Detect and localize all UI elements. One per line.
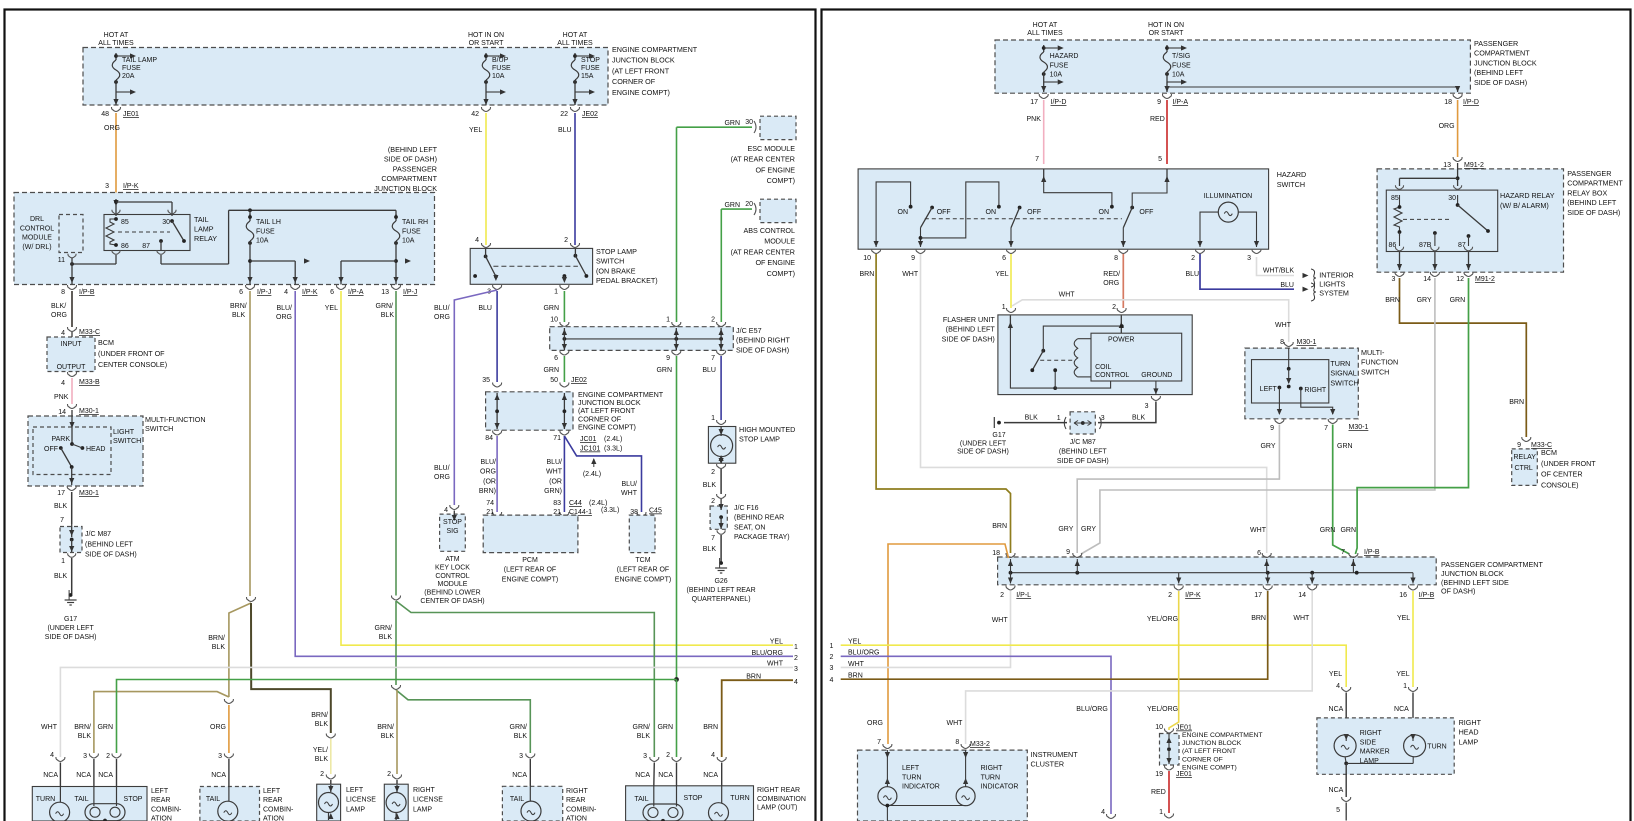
svg-text:7: 7 (711, 535, 715, 542)
svg-text:NCA: NCA (1394, 706, 1409, 713)
fuse TAIL LH FUSE 10A (249, 210, 251, 216)
svg-text:71: 71 (553, 435, 561, 442)
flasher ground output (1155, 381, 1157, 395)
svg-text:ORG: ORG (434, 474, 450, 481)
svg-text:BRN: BRN (1385, 297, 1400, 304)
svg-text:7: 7 (60, 517, 64, 524)
wire relay 86 and DRL 11 to I/P-B (115, 255, 117, 264)
svg-text:NCA: NCA (98, 772, 113, 779)
svg-text:MODULE: MODULE (22, 235, 52, 242)
svg-text:I/P-D: I/P-D (1463, 99, 1479, 106)
svg-text:10A: 10A (1050, 72, 1063, 79)
svg-text:TAIL: TAIL (206, 796, 220, 803)
svg-text:(AT LEFT FRONT: (AT LEFT FRONT (612, 66, 670, 75)
hazard relay coil (1394, 195, 1402, 236)
svg-text:SIDE OF DASH): SIDE OF DASH) (45, 634, 97, 641)
svg-text:WHT/BLK: WHT/BLK (1263, 268, 1294, 275)
svg-text:BLK: BLK (703, 546, 717, 553)
svg-text:BRN/: BRN/ (230, 303, 247, 310)
svg-text:1: 1 (794, 644, 798, 651)
svg-text:RIGHT REAR: RIGHT REAR (757, 787, 800, 794)
svg-text:BLK: BLK (78, 733, 92, 740)
svg-text:BLU/: BLU/ (434, 305, 450, 312)
svg-text:WHT: WHT (992, 617, 1009, 624)
svg-text:(UNDER FRONT: (UNDER FRONT (1541, 459, 1596, 468)
svg-text:SEAT, ON: SEAT, ON (734, 524, 765, 531)
connector I/P-J pin 6 (246, 285, 255, 290)
svg-text:REAR: REAR (151, 797, 170, 804)
svg-text:8: 8 (1280, 339, 1284, 346)
svg-text:BRN): BRN) (479, 488, 496, 495)
wire ORG to M91-2 13 (1457, 100, 1459, 157)
relay pin 85 (168, 210, 176, 214)
svg-text:LEFT: LEFT (902, 765, 920, 772)
svg-text:ORG: ORG (867, 720, 883, 727)
svg-text:NCA: NCA (1329, 787, 1344, 794)
svg-text:TURN: TURN (902, 774, 921, 781)
svg-text:I/P-J: I/P-J (403, 289, 417, 296)
svg-text:BLU/: BLU/ (621, 481, 637, 488)
svg-text:OFF: OFF (937, 209, 951, 216)
svg-text:GRY: GRY (1417, 297, 1432, 304)
svg-text:ORG: ORG (1439, 123, 1455, 130)
svg-text:16: 16 (1399, 592, 1407, 599)
svg-text:TURN: TURN (981, 774, 1000, 781)
svg-text:PNK: PNK (1027, 116, 1042, 123)
svg-text:2: 2 (1191, 255, 1195, 262)
svg-text:2: 2 (711, 498, 715, 505)
wire PNK to hazard switch (1043, 100, 1045, 164)
svg-text:(BEHIND LEFT: (BEHIND LEFT (85, 541, 134, 548)
wire GRN to ABS module (721, 208, 752, 210)
svg-text:4: 4 (711, 752, 715, 759)
svg-text:OUTPUT: OUTPUT (57, 364, 87, 371)
BCM relay ctrl box (1512, 449, 1538, 486)
svg-text:FUSE: FUSE (402, 228, 421, 235)
svg-text:5: 5 (1336, 807, 1340, 814)
svg-text:17: 17 (57, 490, 65, 497)
svg-text:YEL: YEL (770, 639, 783, 646)
svg-text:RELAY BOX: RELAY BOX (1567, 188, 1607, 197)
svg-text:1: 1 (829, 643, 833, 650)
svg-text:ATION: ATION (263, 816, 284, 821)
svg-text:GRN: GRN (1340, 527, 1356, 534)
svg-text:1: 1 (61, 558, 65, 565)
svg-text:BRN/: BRN/ (74, 724, 91, 731)
interior lights system braces (1311, 269, 1316, 287)
svg-text:10A: 10A (256, 238, 269, 245)
svg-text:10: 10 (863, 255, 871, 262)
svg-text:GRN: GRN (1320, 527, 1336, 534)
svg-text:4: 4 (61, 380, 65, 387)
svg-text:MODULE: MODULE (764, 237, 795, 246)
svg-text:OR START: OR START (469, 40, 504, 47)
svg-text:GRN: GRN (1337, 443, 1353, 450)
svg-text:RED/: RED/ (1103, 271, 1120, 278)
left license lamp box (317, 784, 341, 821)
svg-text:GRN/: GRN/ (510, 724, 528, 731)
svg-text:LICENSE: LICENSE (413, 797, 443, 804)
right head lamp turn lamp (1412, 736, 1414, 741)
light switch inner box (33, 427, 111, 475)
wire YEL bus 1 right panel (841, 645, 1346, 687)
svg-text:2: 2 (106, 753, 110, 760)
svg-text:TAIL: TAIL (74, 796, 88, 803)
svg-text:BLK: BLK (381, 312, 395, 319)
svg-text:7: 7 (1341, 549, 1345, 556)
svg-text:BRN/: BRN/ (311, 712, 328, 719)
svg-text:OF ENGINE: OF ENGINE (755, 258, 795, 267)
svg-text:3: 3 (1145, 403, 1149, 410)
svg-text:ORG: ORG (480, 469, 496, 476)
svg-text:BLU/: BLU/ (276, 305, 292, 312)
connector tail pin 3 (solid box) (89, 754, 98, 759)
svg-text:ALL TIMES: ALL TIMES (98, 40, 134, 47)
svg-text:G17: G17 (992, 432, 1005, 439)
svg-text:ATM: ATM (445, 556, 459, 563)
svg-text:BLK: BLK (54, 503, 68, 510)
svg-text:SWITCH: SWITCH (1277, 180, 1305, 189)
svg-text:CENTER OF DASH): CENTER OF DASH) (420, 598, 484, 605)
svg-text:J/C M87: J/C M87 (85, 531, 111, 538)
svg-text:(AT REAR CENTER: (AT REAR CENTER (731, 247, 795, 256)
svg-text:ORG: ORG (104, 125, 120, 132)
svg-text:BLK: BLK (514, 733, 528, 740)
hazard switch box (858, 169, 1269, 249)
connector M30-1 pin 17 (67, 486, 76, 491)
PCM box (483, 515, 578, 553)
svg-text:JUNCTION BLOCK: JUNCTION BLOCK (1441, 569, 1504, 578)
relay coil (106, 219, 116, 245)
flasher internals (1010, 330, 1055, 388)
connectors top of bottom junction block (1006, 553, 1015, 558)
svg-text:OF DASH): OF DASH) (1441, 587, 1475, 596)
svg-text:SIDE OF DASH): SIDE OF DASH) (85, 552, 137, 559)
wire ORG to I/P-K (115, 113, 117, 193)
relay pin 87 (157, 250, 165, 254)
svg-text:HEAD: HEAD (86, 446, 105, 453)
svg-text:M30-1: M30-1 (1349, 424, 1369, 431)
svg-text:LAMP: LAMP (194, 225, 214, 234)
svg-text:CORNER OF: CORNER OF (612, 77, 656, 86)
wire tail RH fuse to I/P-A and I/P-J (395, 242, 397, 285)
wire relay 87 to tail fuses rail (160, 255, 162, 264)
wire RED to hazard switch (1166, 100, 1168, 164)
wire BRN/BLK dark to left license lamp (251, 603, 331, 733)
svg-text:POWER: POWER (1108, 337, 1134, 344)
left rear combination lamp box (solid) (32, 787, 147, 821)
svg-text:(ON BRAKE: (ON BRAKE (596, 266, 636, 275)
wire YEL junction 16 to right head lamp turn (1412, 591, 1414, 687)
svg-text:BLU/ORG: BLU/ORG (1076, 706, 1108, 713)
svg-text:BLK: BLK (212, 644, 226, 651)
svg-text:INDICATOR: INDICATOR (902, 784, 940, 791)
svg-text:SIDE OF DASH): SIDE OF DASH) (1057, 458, 1109, 465)
connector M33-C pin 4 (68, 327, 77, 332)
tail lamp relay box (104, 215, 190, 251)
svg-text:3: 3 (643, 753, 647, 760)
svg-text:BRN: BRN (860, 271, 875, 278)
svg-text:BLU: BLU (1280, 282, 1294, 289)
passenger compartment junction block box (left) (14, 193, 435, 285)
svg-text:8: 8 (1114, 255, 1118, 262)
wire YEL hazard 6 to flasher 1 (1010, 254, 1012, 308)
connector JE01 pin 48 (112, 107, 121, 112)
svg-text:C45: C45 (649, 508, 662, 515)
svg-text:30: 30 (162, 219, 170, 226)
svg-text:20A: 20A (122, 73, 135, 80)
svg-text:LEFT: LEFT (151, 788, 169, 795)
svg-text:(2.4L): (2.4L) (604, 436, 622, 443)
svg-text:4: 4 (794, 679, 798, 686)
svg-text:(UNDER LEFT: (UNDER LEFT (47, 625, 94, 632)
splice to YEL/BLK (326, 734, 335, 739)
svg-text:MARKER: MARKER (1360, 749, 1390, 756)
svg-text:M33-2: M33-2 (970, 741, 990, 748)
relay switch blade (1457, 195, 1459, 205)
connector I/P-A pin 6 (337, 285, 346, 290)
stop lamp switch contacts (484, 255, 488, 259)
svg-text:10: 10 (550, 317, 558, 324)
svg-text:INTERIOR: INTERIOR (1319, 271, 1353, 280)
svg-text:4: 4 (475, 237, 479, 244)
svg-text:3: 3 (1391, 276, 1395, 283)
svg-text:COMPARTMENT: COMPARTMENT (1567, 179, 1623, 188)
wire BLU/WHT branch to TCM 38 (564, 436, 641, 512)
left rear combination lamp box (dashed) (200, 787, 260, 821)
wire GRN horizontal to left stop lamp (117, 680, 677, 754)
right head lamp bottom wiring (1345, 757, 1346, 763)
svg-text:74: 74 (486, 500, 494, 507)
fuse TAIL LAMP FUSE 20A (115, 53, 117, 60)
svg-text:J/C F16: J/C F16 (734, 505, 759, 512)
svg-text:NCA: NCA (1329, 706, 1344, 713)
svg-text:ORG: ORG (276, 314, 292, 321)
connector I/P-J pin 13 (392, 285, 401, 290)
wire BLK/ORG to BCM (71, 291, 73, 327)
svg-text:YEL/ORG: YEL/ORG (1147, 706, 1178, 713)
svg-text:NCA: NCA (43, 772, 58, 779)
svg-text:HOT AT: HOT AT (563, 32, 588, 39)
svg-text:2: 2 (1000, 592, 1004, 599)
svg-text:85: 85 (1391, 195, 1399, 202)
ATM stop sig box (440, 514, 466, 551)
svg-text:ESC MODULE: ESC MODULE (747, 144, 795, 153)
svg-text:LEFT: LEFT (346, 787, 364, 794)
svg-text:10: 10 (1155, 724, 1163, 731)
svg-text:I/P-K: I/P-K (1185, 592, 1201, 599)
connector pin 84 (493, 431, 502, 436)
svg-text:SWITCH: SWITCH (113, 436, 141, 445)
svg-text:(OR: (OR (549, 478, 562, 485)
svg-text:M91-2: M91-2 (1475, 276, 1495, 283)
right side marker lamp (1345, 736, 1347, 741)
wire WHT junction 2 I/P-L to bus 3 (841, 591, 1011, 667)
svg-text:WHT: WHT (1275, 322, 1292, 329)
multi-function switch outer box (right) (1245, 348, 1358, 419)
svg-text:2: 2 (564, 237, 568, 244)
turn lamp (left rear) (50, 802, 70, 821)
passenger compartment junction block (bottom right) (998, 557, 1437, 585)
connector I/P-K pin 4 (291, 285, 300, 290)
wire BLU/ORG diagonal to ATM module (454, 290, 497, 505)
svg-text:BRN: BRN (1509, 399, 1524, 406)
svg-text:RIGHT: RIGHT (413, 787, 436, 794)
left panel border frame (5, 10, 816, 821)
svg-text:1: 1 (1403, 683, 1407, 690)
hazard switch pin 5 entry (1166, 169, 1168, 180)
svg-text:LIGHTS: LIGHTS (1319, 279, 1345, 288)
svg-text:8: 8 (61, 289, 65, 296)
svg-text:BRN: BRN (703, 724, 718, 731)
svg-text:ON: ON (898, 209, 909, 216)
svg-text:WHT: WHT (902, 271, 919, 278)
engine compartment junction block (small, right) (1160, 734, 1180, 766)
svg-text:ON: ON (1099, 209, 1110, 216)
svg-text:BLK: BLK (703, 482, 717, 489)
svg-text:5: 5 (1158, 156, 1162, 163)
wire BLK to J/C F16 (720, 469, 722, 494)
svg-text:FLASHER UNIT: FLASHER UNIT (943, 315, 996, 324)
svg-text:BLU: BLU (1186, 271, 1200, 278)
svg-text:(3.3L): (3.3L) (604, 446, 622, 453)
svg-text:SIDE OF DASH): SIDE OF DASH) (957, 449, 1009, 456)
flasher unit box (998, 315, 1192, 395)
svg-text:FUSE: FUSE (256, 228, 275, 235)
splice on GRN/BLK upper (392, 596, 401, 601)
wire GRN ABS down to J/C E57 pin 2 (720, 209, 722, 322)
svg-text:I/P-B: I/P-B (79, 289, 95, 296)
svg-text:2: 2 (711, 469, 715, 476)
svg-text:(BEHIND LEFT: (BEHIND LEFT (388, 145, 438, 154)
svg-text:CTRL: CTRL (1515, 465, 1533, 472)
svg-text:4: 4 (1101, 809, 1105, 816)
svg-text:RIGHT: RIGHT (981, 765, 1004, 772)
svg-text:YEL: YEL (848, 639, 861, 646)
turn signal switch inner box (1252, 360, 1329, 403)
svg-text:WHT: WHT (947, 720, 964, 727)
svg-text:GRY: GRY (1058, 526, 1073, 533)
svg-text:SIDE: SIDE (1360, 739, 1377, 746)
svg-text:JE01: JE01 (1176, 771, 1192, 778)
svg-text:30: 30 (1448, 195, 1456, 202)
hazard relay inner box (1386, 190, 1497, 251)
svg-text:FUNCTION: FUNCTION (1361, 358, 1398, 367)
svg-text:9: 9 (1517, 442, 1521, 449)
svg-text:NCA: NCA (703, 772, 718, 779)
svg-text:LEFT: LEFT (263, 788, 281, 795)
wire GRN relay 87 to junction 7 (1355, 278, 1468, 554)
svg-text:BRN: BRN (1251, 615, 1266, 622)
svg-text:RED: RED (1151, 789, 1166, 796)
svg-text:14: 14 (1298, 592, 1306, 599)
connector M33-B pin 4 (68, 372, 77, 377)
svg-text:BLU/: BLU/ (480, 459, 496, 466)
ground G17 (left panel) (69, 593, 73, 597)
wire BRN bus 4 right panel from junction 17 (841, 591, 1268, 679)
svg-text:(2.4L): (2.4L) (583, 471, 601, 478)
svg-text:RED: RED (1150, 116, 1165, 123)
svg-text:BLK/: BLK/ (51, 303, 66, 310)
svg-text:CONTROL: CONTROL (435, 573, 469, 580)
svg-text:OFF: OFF (1139, 209, 1153, 216)
svg-text:2: 2 (794, 655, 798, 662)
svg-text:SIDE OF DASH): SIDE OF DASH) (1567, 208, 1620, 217)
svg-text:BRN: BRN (848, 673, 863, 680)
svg-text:JE02: JE02 (582, 111, 598, 118)
svg-text:WHT: WHT (767, 661, 784, 668)
svg-text:BLU/: BLU/ (434, 465, 450, 472)
fuse STOP FUSE 15A (574, 53, 576, 60)
splice to ORG wire (224, 699, 233, 704)
flasher coil (1074, 339, 1078, 377)
svg-text:G17: G17 (64, 616, 77, 623)
svg-text:B/UP: B/UP (492, 57, 509, 64)
wire WHT bus 3 (60, 667, 793, 757)
wire GRY relay 87B to junction 9 (1081, 278, 1435, 554)
svg-text:(OR: (OR (483, 478, 496, 485)
relay pins exit outer box (1395, 247, 1403, 251)
svg-text:BLK: BLK (381, 733, 395, 740)
svg-text:FUSE: FUSE (492, 65, 511, 72)
engine compartment junction block (top left) (83, 48, 608, 106)
svg-text:9: 9 (1157, 99, 1161, 106)
wire RED/ORG hazard 8 to flasher 2 (1122, 254, 1124, 308)
connector pin 1 of stop lamp switch (560, 285, 569, 290)
svg-text:GRN/: GRN/ (633, 724, 651, 731)
connector J/C E57 pins top 1 2 (672, 322, 681, 327)
wire BLK to J/C M87 (71, 492, 73, 524)
svg-text:BCM: BCM (98, 338, 114, 347)
svg-text:19: 19 (1155, 771, 1163, 778)
svg-text:LAMP: LAMP (1459, 737, 1479, 746)
svg-text:(W/ DRL): (W/ DRL) (22, 244, 51, 251)
svg-text:WHT: WHT (41, 724, 58, 731)
svg-text:RELAY: RELAY (1514, 454, 1537, 461)
connector M30-1 pins 9 7 (1275, 419, 1284, 424)
svg-text:(BEHIND LEFT: (BEHIND LEFT (1567, 198, 1617, 207)
svg-text:TURN: TURN (36, 796, 55, 803)
wire BLU hazard 2 to interior lights (1200, 254, 1294, 289)
svg-text:87: 87 (142, 243, 150, 250)
svg-text:JUNCTION BLOCK: JUNCTION BLOCK (1474, 58, 1537, 67)
svg-text:TURN: TURN (1330, 359, 1350, 368)
svg-text:GRN: GRN (656, 367, 672, 374)
svg-text:FUSE: FUSE (122, 65, 141, 72)
connector I/P-D pin 18 (1453, 94, 1462, 99)
wire GRN down to right rear stop lamp (676, 680, 678, 758)
svg-text:BLK: BLK (379, 634, 393, 641)
svg-text:ORG: ORG (1103, 280, 1119, 287)
tail lamp (dashed box) (218, 801, 238, 821)
svg-text:3: 3 (218, 753, 222, 760)
svg-text:BLK: BLK (315, 756, 329, 763)
svg-text:12: 12 (1456, 276, 1464, 283)
svg-text:CENTER CONSOLE): CENTER CONSOLE) (98, 360, 167, 369)
J/C F16 box (710, 506, 727, 529)
svg-text:1: 1 (1159, 809, 1163, 816)
svg-text:YEL: YEL (1329, 671, 1342, 678)
engine compartment junction block (lower left) (486, 392, 573, 430)
turn lamp (right rear) (709, 803, 729, 821)
svg-text:JE01: JE01 (1176, 725, 1192, 732)
svg-text:(AT LEFT FRONT: (AT LEFT FRONT (1182, 748, 1236, 755)
svg-text:3: 3 (1247, 255, 1251, 262)
svg-text:DRL: DRL (30, 216, 44, 223)
svg-text:14: 14 (58, 409, 66, 416)
svg-text:(BEHIND REAR: (BEHIND REAR (734, 515, 784, 522)
svg-text:(LEFT REAR OF: (LEFT REAR OF (504, 567, 556, 574)
